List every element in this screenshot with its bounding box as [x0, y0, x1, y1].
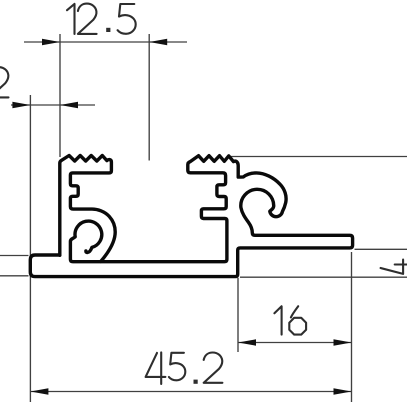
text 45.2	[146, 353, 166, 377]
extension line y=156.5 (serration top, to right edge)	[231, 156, 407, 158]
extension line y=255.5 (base top, to left edge)	[0, 255, 29, 257]
extension line x=238 (16 dim left)	[237, 278, 239, 352]
extension line y=249.3 (flange bottom, to right edge)	[355, 248, 407, 250]
extension line x=149.2 (right of 12.5 dim)	[148, 34, 150, 161]
dimension line 12.5 (y=42)	[24, 41, 187, 43]
arrow 16 right	[334, 339, 352, 345]
dimension line 45.2 (y=391.5)	[30, 391, 351, 393]
arrow 16 left	[238, 339, 256, 345]
text 4 (rotated, right edge, partially clipped)	[381, 260, 404, 274]
dimension line 16 (y=342.5)	[238, 342, 352, 344]
extension line x=30.4 (left: 2 dim and 45.2 dim)	[29, 95, 31, 402]
extension line x=351.5 (16 and 45.2 dim right)	[351, 252, 353, 402]
arrow 2 left	[12, 102, 30, 108]
text 12.5	[67, 4, 75, 34]
arrow 45.2 right	[334, 388, 352, 394]
extension line x=60 (left of 12.5 dim / right of 2 dim)	[59, 34, 61, 157]
profile: base plate, right section with hook, flange, boss inner C-ring	[30, 156, 352, 277]
arrow 45.2 left	[30, 388, 48, 394]
arrow 12.5 left	[42, 39, 60, 45]
arrow 2 right	[60, 102, 78, 108]
text 2 (cut off at left edge)	[0, 67, 9, 97]
extension line y=275.8 (base bottom, to left edge)	[0, 275, 29, 277]
text 16	[274, 306, 281, 334]
dimension line 2 (y=105)	[11, 104, 95, 106]
extension line y=277.2 (base bottom, to right edge)	[240, 276, 407, 278]
profile left section: wall, serrated top, notch teeth, screw-boss outer arc	[60, 156, 115, 262]
arrow 12.5 right	[149, 39, 167, 45]
